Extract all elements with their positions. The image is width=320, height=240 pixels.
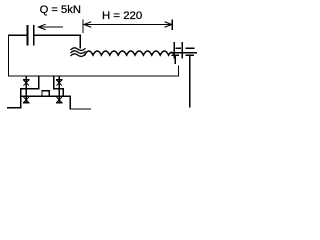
piston plate left — [27, 26, 29, 44]
flange line left — [21, 88, 39, 90]
tongue vertical right — [53, 76, 55, 89]
support rod 1 — [24, 76, 29, 103]
anchor plate 1 — [173, 43, 175, 58]
extension tick right — [171, 20, 173, 30]
flange line right — [54, 89, 64, 96]
boss bump — [42, 91, 49, 97]
bracket wall left — [20, 89, 22, 108]
upper dash 2 — [186, 47, 194, 49]
spring wave — [85, 51, 174, 55]
wire rod left — [9, 34, 28, 36]
bracket top — [21, 95, 70, 97]
bracket wall right — [69, 96, 71, 109]
wire rod right — [34, 35, 80, 47]
lower dash 1 — [172, 54, 178, 56]
svg-text:Q = 5kN: Q = 5kN — [40, 4, 81, 16]
bracket foot left — [8, 107, 21, 109]
force arrow Q — [39, 24, 63, 29]
wall left — [8, 35, 10, 76]
spring anchor squiggle — [71, 48, 85, 57]
anchor plate 2 — [181, 43, 183, 58]
stem 1 — [174, 55, 176, 63]
stem 2 — [189, 55, 191, 107]
lower dash 2 — [186, 54, 193, 56]
extension tick left — [82, 20, 84, 33]
piston plate right — [33, 26, 35, 44]
frame bottom — [9, 66, 179, 76]
dimension line H — [84, 22, 172, 27]
tongue vertical left — [38, 76, 40, 89]
right anchor main line — [171, 52, 197, 54]
support rod 2 — [57, 76, 62, 103]
bracket foot right — [70, 108, 90, 110]
upper dash 1 — [176, 47, 180, 49]
svg-text:H = 220: H = 220 — [102, 10, 142, 22]
